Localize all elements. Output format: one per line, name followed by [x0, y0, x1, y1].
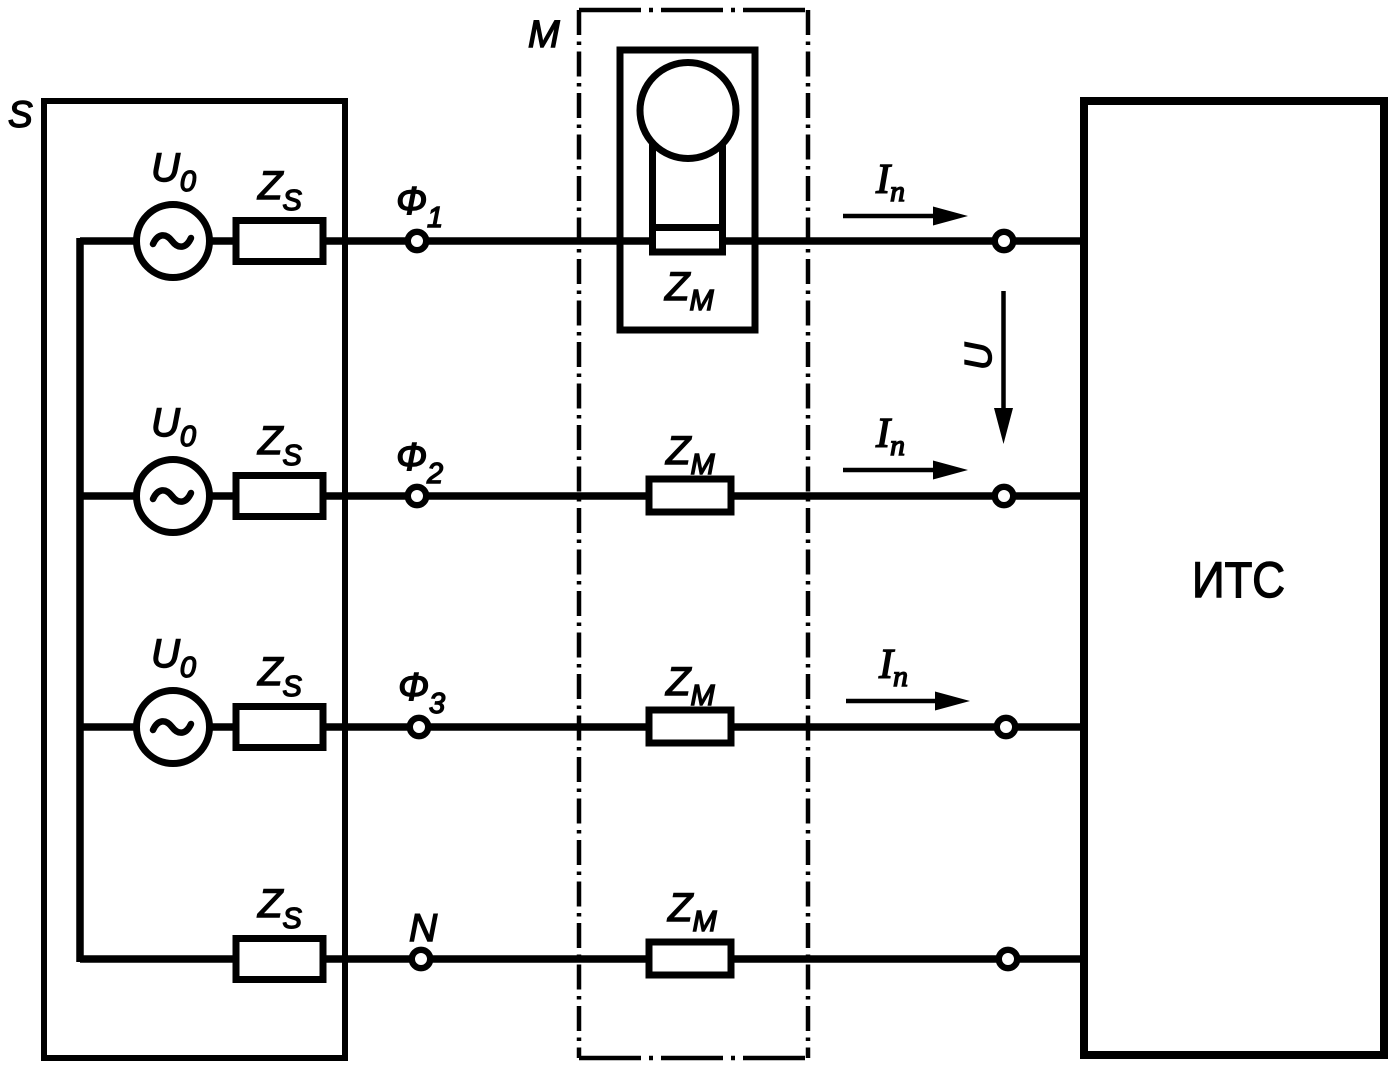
arrow In phase 2 — [843, 461, 968, 480]
resistor ZS phase 3 — [236, 707, 323, 748]
wire phase 3 — [80, 723, 1084, 731]
arrow In phase 1 — [843, 207, 968, 226]
node F3 — [410, 718, 428, 736]
source U0 phase 1 — [137, 205, 210, 278]
resistor ZS phase 2 — [236, 476, 323, 517]
node N — [412, 950, 430, 968]
svg-text:M: M — [528, 14, 560, 56]
resistor ZS phase 1 — [236, 221, 323, 262]
resistor ZS neutral — [236, 939, 323, 980]
node terminal 3 — [997, 718, 1015, 736]
svg-text:U: U — [958, 342, 1000, 370]
box S — [44, 101, 345, 1058]
node F2 — [408, 487, 426, 505]
wire neutral — [80, 955, 1084, 963]
svg-text:ИТС: ИТС — [1192, 552, 1285, 608]
box M dash-dot — [579, 10, 808, 1058]
resistor ZM neutral — [649, 942, 731, 975]
current transformer clamp ZM phase 1 — [620, 50, 755, 330]
wire phase 1 — [80, 237, 1084, 245]
arrow U voltage — [994, 291, 1013, 444]
arrow In phase 3 — [846, 692, 970, 711]
source U0 phase 2 — [137, 460, 210, 533]
resistor ZM phase 3 — [649, 710, 731, 743]
resistor ZM phase 2 — [649, 479, 731, 512]
wire bus vertical — [76, 238, 84, 962]
wire phase 2 — [80, 492, 1084, 500]
svg-text:S: S — [8, 94, 33, 135]
node terminal N — [999, 950, 1017, 968]
svg-text:N: N — [409, 907, 438, 950]
node terminal 1 — [995, 232, 1013, 250]
box ITS — [1084, 101, 1384, 1055]
node F1 — [408, 232, 426, 250]
node terminal 2 — [995, 487, 1013, 505]
source U0 phase 3 — [137, 691, 210, 764]
